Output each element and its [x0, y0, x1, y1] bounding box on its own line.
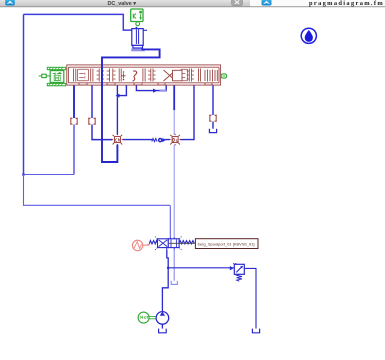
wire Du right up to valve [180, 85, 194, 140]
relief valve [233, 263, 244, 281]
wire spool valve bottom left jog to pump [162, 250, 168, 311]
wire cylinder bottom loop to valve (thick, overlays valve) [102, 49, 160, 162]
tab close button [232, 0, 243, 6]
favicon right [262, 0, 272, 6]
bottom tabs [79, 83, 212, 85]
wire pump to tank [161, 324, 163, 328]
link line to label [169, 242, 196, 244]
node Du [169, 134, 181, 146]
wire x170 down to spool valve [169, 205, 171, 237]
valve orifice mark with dots [121, 73, 125, 78]
browser tab bar [0, 0, 250, 7]
wire Ch to throttle to Du [123, 139, 170, 141]
wire jumper ports B (with arrow) [136, 85, 166, 91]
wire relief valve out to drain tank [244, 268, 256, 328]
pressure indicator gauge (red) [132, 240, 150, 250]
wire valve port x74 down (thick through orifice) [73, 85, 75, 118]
valve end green connector [221, 74, 226, 78]
inner chamber boxes [78, 69, 89, 80]
node junction left bus [22, 173, 25, 176]
tank relief drain [252, 329, 259, 333]
valve S-curve spool path [133, 71, 137, 81]
spring section right [205, 70, 217, 82]
orifice R1 (x74) [70, 118, 77, 125]
tank under spool valve [171, 281, 177, 285]
motor MOT (green) [138, 312, 156, 323]
tank under pump [159, 329, 167, 333]
node Ch [112, 134, 124, 146]
crossed flow paths [164, 70, 177, 81]
tank under orifice x213 [209, 129, 216, 133]
svg-text:DC_valve ▾: DC_valve ▾ [108, 1, 137, 7]
signal source block (lookup table) [131, 9, 143, 26]
node junction bottom [167, 267, 170, 270]
valve pilot actuator (green, left) [39, 67, 66, 86]
wire spool valve bottom right to small tank [173, 250, 175, 281]
orifice R3 (x213) [209, 115, 216, 122]
fluid properties (blue drop) [301, 28, 316, 43]
spool port valve U2 [149, 237, 194, 251]
directional valve body V1 [67, 65, 221, 85]
label box for spool valve [195, 239, 258, 249]
wire signal loop top (source to cylinder port) [24, 14, 132, 30]
tab favicon left [5, 0, 15, 6]
combs with teeth [97, 69, 105, 82]
wire valve port x213 to tank [212, 85, 214, 129]
throttle with arrow (blue) [152, 138, 166, 143]
wire left vertical bus [23, 14, 25, 174]
pump [156, 312, 169, 325]
wire x174 light down through Du to spool valve [173, 110, 175, 238]
wire branch y174 to x74 [24, 174, 75, 176]
wire y268 to relief valve (with arrow) [168, 267, 234, 269]
wire valve port x92 down to Ch node [92, 85, 112, 140]
svg-text:pragmadiagram.fm: pragmadiagram.fm [309, 0, 384, 7]
wire jumper ports A (with arrow) [117, 85, 126, 96]
cylinder base plate [131, 49, 145, 52]
wire valve port B down (thick) [173, 85, 175, 110]
orifice R2 (x92) [88, 118, 95, 125]
svg-text:berg_Spoolport_01 [KBVSb_01]: berg_Spoolport_01 [KBVSb_01] [198, 242, 255, 247]
valve spool dividers [74, 69, 218, 82]
hydraulic cylinder [132, 27, 147, 48]
wire left bus lower + long horizontal y205 [24, 175, 171, 206]
